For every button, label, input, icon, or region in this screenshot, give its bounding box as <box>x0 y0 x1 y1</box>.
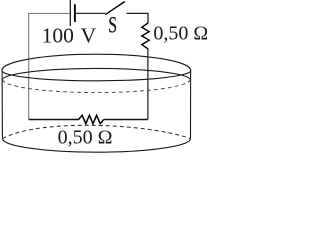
battery short plate (negative) <box>74 4 76 22</box>
vessel left wall <box>1 71 3 139</box>
resistor R2 0,50 ohm (horizontal zigzag, immersed) <box>79 115 104 123</box>
vessel bottom ellipse: front arc (solid) <box>3 139 191 153</box>
water surface ellipse: back arc (solid) <box>2 68 190 79</box>
battery long plate (positive) <box>69 0 71 26</box>
vessel bottom ellipse: back arc (dashed) <box>3 125 191 138</box>
svg-text:100 V: 100 V <box>42 24 97 48</box>
vessel rim: top-back arc <box>2 54 191 70</box>
wire: switch to top-right corner, down to resistor <box>127 13 148 23</box>
water surface ellipse: front arc (dashed) <box>2 80 190 93</box>
wire: bottom horizontal right segment <box>104 119 148 121</box>
svg-text:0,50 Ω: 0,50 Ω <box>153 23 207 45</box>
wire: top-left horizontal and left vertical branch <box>29 13 70 119</box>
vessel rim: bottom-front arc <box>2 71 191 81</box>
wire: battery to switch contact <box>75 12 106 14</box>
switch S blade (open) <box>105 2 124 15</box>
svg-text:S: S <box>108 12 117 37</box>
wire: bottom horizontal left segment <box>29 119 79 121</box>
resistor R1 0,50 ohm (vertical zigzag) <box>142 23 149 49</box>
svg-text:0,50 Ω: 0,50 Ω <box>58 126 113 148</box>
wire: resistor R1 down into vessel <box>147 49 149 120</box>
vessel right wall <box>190 71 192 139</box>
